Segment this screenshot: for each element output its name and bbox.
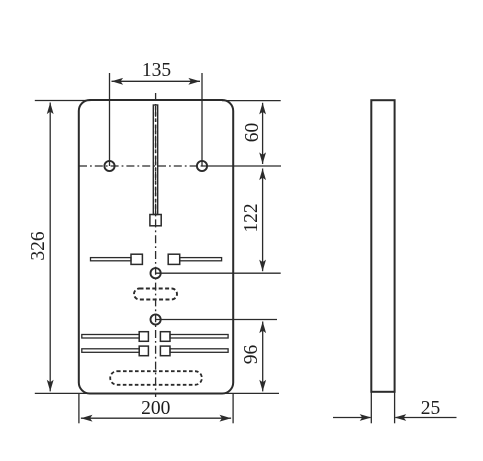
left hole (104, 161, 114, 171)
upper left tab bar (91, 258, 132, 261)
dim 135 extension line left (109, 73, 111, 166)
dim 96 line (262, 322, 264, 392)
svg-text:60: 60 (242, 123, 263, 143)
dim 25 line left segment (333, 417, 371, 419)
svg-text:96: 96 (241, 345, 262, 365)
dim 326 arrow bottom (47, 380, 54, 392)
svg-text:122: 122 (241, 203, 262, 232)
large dashed slot (110, 371, 202, 385)
svg-text:326: 326 (28, 231, 49, 261)
dim 326 extension top (35, 100, 91, 102)
lower row2 right square (160, 346, 170, 356)
dim 96 extension (middle hole lower leader) (156, 319, 277, 321)
dim 200 arrow left (81, 415, 93, 422)
dim 60 extension (hole line extended right) (202, 165, 281, 167)
upper right tab bar (180, 258, 222, 261)
dim 122 extension (middle hole upper leader) (156, 272, 281, 274)
dim 200 line (81, 417, 231, 419)
lower row2 left bar (82, 349, 139, 353)
plate outline (front view) (79, 100, 233, 394)
lower row1 right bar (170, 335, 228, 339)
dim 326 extension bottom (35, 392, 91, 394)
lower row1 right square (160, 332, 170, 342)
lower row1 left bar (82, 335, 139, 339)
dim 200 extension left (78, 394, 80, 423)
dim 122 arrow bottom (259, 260, 266, 272)
lower row1 left square (139, 332, 148, 342)
svg-text:135: 135 (142, 60, 171, 81)
dim 60 line (262, 103, 264, 164)
dim 25 arrow left (pointing right) (360, 414, 372, 421)
dim 25 arrow right (pointing left) (395, 414, 407, 421)
svg-text:25: 25 (421, 398, 441, 419)
dim 135 line (112, 80, 201, 82)
dim 326 arrow top (47, 103, 54, 115)
dim 60 arrow top (259, 103, 266, 115)
small dashed slot (134, 289, 177, 300)
dim 25 extension right (394, 392, 396, 423)
lower row2 right bar (170, 349, 228, 353)
top slot (153, 105, 157, 215)
middle hole lower (151, 314, 161, 324)
dim 60 arrow bottom (259, 152, 266, 164)
dim 96 arrow bottom (259, 380, 266, 392)
dim 135 extension line right (201, 73, 203, 166)
dim 200 arrow right (220, 415, 232, 422)
dim 122 line (262, 169, 264, 272)
dim 25 extension left (370, 392, 372, 423)
horizontal center line through top holes (79, 165, 204, 167)
dim 60 extension (plate top edge extended right) (222, 100, 281, 102)
slot bottom square (150, 215, 161, 226)
side view plate (371, 100, 394, 392)
middle hole upper (151, 268, 161, 278)
dim 122 arrow top (259, 169, 266, 181)
dim 200 extension right (232, 394, 234, 423)
upper right tab square (168, 254, 180, 264)
lower row2 left square (139, 346, 148, 356)
vertical center line of front view (155, 93, 157, 397)
top slot inner hatch (155, 106, 157, 214)
dim 326 line (49, 103, 51, 392)
right hole (197, 161, 207, 171)
dim 96 extension (plate bottom extended right) (222, 392, 279, 394)
dim 135 arrow right (188, 78, 200, 85)
dim 96 arrow top (259, 322, 266, 334)
upper left tab square (131, 254, 142, 264)
dim 25 line right segment (395, 417, 456, 419)
svg-text:200: 200 (141, 398, 170, 419)
dim 135 arrow left (112, 78, 124, 85)
